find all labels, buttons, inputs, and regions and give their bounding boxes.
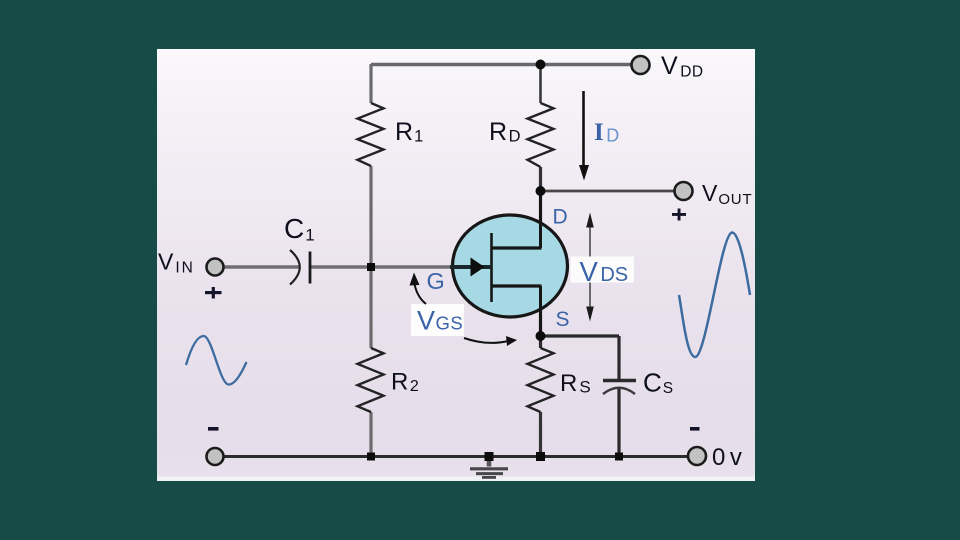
svg-text:S: S <box>556 308 570 331</box>
svg-text:0v: 0v <box>712 444 746 471</box>
svg-text:G: G <box>427 268 445 294</box>
svg-text:D: D <box>553 206 568 229</box>
